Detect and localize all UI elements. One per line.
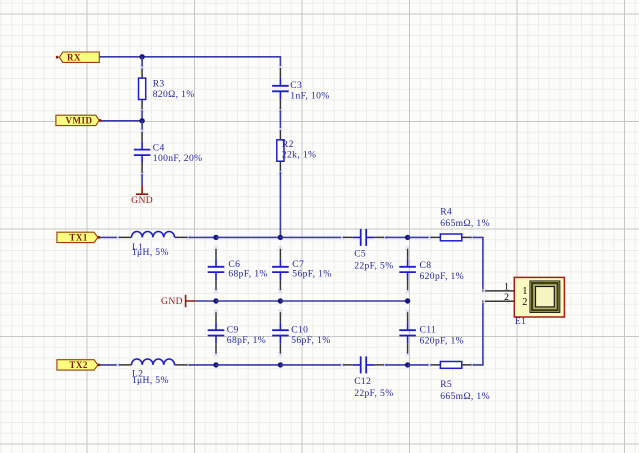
svg-text:GND: GND bbox=[131, 195, 153, 206]
svg-text:665mΩ, 1%: 665mΩ, 1% bbox=[440, 218, 490, 229]
resistor R3 (820&#937;, 1%) bbox=[139, 65, 195, 112]
port TX1 pin dot bbox=[98, 236, 101, 239]
svg-text:22pF, 5%: 22pF, 5% bbox=[354, 261, 393, 272]
wire GND row C6 to C7 bbox=[216, 300, 280, 302]
port RX pin dot bbox=[56, 56, 59, 59]
svg-text:E1: E1 bbox=[515, 316, 526, 327]
inductor L1 (1&#956;H, 5%) bbox=[116, 232, 191, 258]
wire TX1 port to L1 bbox=[99, 236, 117, 238]
svg-text:1μH, 5%: 1μH, 5% bbox=[132, 375, 169, 386]
E1 pin 1 bbox=[482, 282, 514, 293]
wire L1 to C6 node bbox=[189, 236, 217, 238]
svg-text:1: 1 bbox=[504, 282, 509, 293]
capacitor C9 (68pF, 1%) bbox=[208, 309, 266, 356]
svg-text:2: 2 bbox=[504, 292, 509, 303]
svg-text:56pF, 1%: 56pF, 1% bbox=[291, 335, 330, 346]
junction RX / R3 bbox=[139, 54, 144, 59]
svg-text:22k, 1%: 22k, 1% bbox=[282, 150, 316, 161]
wire R5 to E1 pin 2 bbox=[473, 301, 485, 365]
junction TX2 / C11 bbox=[405, 362, 410, 367]
wire VMID port to node bbox=[99, 120, 142, 122]
svg-text:C5: C5 bbox=[354, 249, 366, 260]
svg-text:820Ω, 1%: 820Ω, 1% bbox=[153, 89, 195, 100]
wire C7 node to C5 bbox=[280, 236, 341, 238]
power port GND (middle row) bbox=[161, 295, 196, 307]
wire C12 to C11 node bbox=[385, 364, 408, 366]
svg-text:R5: R5 bbox=[440, 379, 452, 390]
port TX1 bbox=[57, 232, 98, 242]
port VMID bbox=[56, 115, 99, 125]
capacitor C12 (22pF, 5%) bbox=[340, 356, 394, 399]
svg-text:22pF, 5%: 22pF, 5% bbox=[354, 388, 393, 399]
svg-text:68pF, 1%: 68pF, 1% bbox=[227, 335, 266, 346]
junction TX1 / C8 bbox=[405, 235, 410, 240]
junction VMID / C4 bbox=[139, 118, 144, 123]
svg-text:C11: C11 bbox=[420, 325, 437, 336]
wire RX to C3 column bbox=[99, 57, 280, 67]
resistor R2 (22k, 1%) bbox=[277, 127, 317, 174]
svg-text:665mΩ, 1%: 665mΩ, 1% bbox=[440, 391, 490, 402]
svg-text:R4: R4 bbox=[440, 207, 452, 218]
wire C4 to GND bbox=[141, 174, 143, 185]
svg-text:C8: C8 bbox=[420, 260, 432, 271]
svg-text:R3: R3 bbox=[153, 78, 165, 89]
connector E1 bbox=[514, 277, 564, 327]
wire C5 to C8 node bbox=[385, 236, 408, 238]
port TX2 pin dot bbox=[98, 364, 101, 367]
capacitor C10 (56pF, 1%) bbox=[272, 309, 330, 356]
junction TX1 / C6 bbox=[213, 235, 218, 240]
wire R4 to E1 pin 1 bbox=[473, 237, 485, 291]
svg-text:RX: RX bbox=[67, 52, 81, 62]
port TX2 bbox=[57, 360, 98, 370]
capacitor C4 (100nF, 20%) bbox=[134, 129, 203, 176]
wire C11 node to R5 bbox=[408, 364, 430, 366]
svg-text:620pF, 1%: 620pF, 1% bbox=[420, 271, 465, 282]
svg-text:1μH, 5%: 1μH, 5% bbox=[132, 247, 169, 258]
capacitor C5 (22pF, 5%) bbox=[340, 229, 394, 272]
wire R2 to TX1 row bbox=[279, 172, 281, 238]
wire C9 node to C10 node bbox=[216, 364, 280, 366]
junction GND / C6 / C9 bbox=[213, 298, 218, 303]
svg-text:C9: C9 bbox=[227, 324, 239, 335]
svg-text:56pF, 1%: 56pF, 1% bbox=[292, 269, 331, 280]
wire GND row C7 to C8 bbox=[280, 300, 407, 302]
wire R3 to VMID node bbox=[141, 110, 143, 121]
capacitor C8 (620pF, 1%) bbox=[399, 246, 464, 293]
junction TX1 / C7 / R2 bbox=[278, 235, 283, 240]
svg-text:C12: C12 bbox=[354, 376, 371, 387]
svg-text:C4: C4 bbox=[153, 142, 165, 153]
junction TX2 / C9 bbox=[213, 362, 218, 367]
svg-text:C3: C3 bbox=[290, 80, 302, 91]
svg-text:2: 2 bbox=[522, 297, 527, 308]
capacitor C3 (1nF, 10%) bbox=[272, 65, 330, 112]
wire C3 to R2 bbox=[279, 110, 281, 129]
port VMID pin dot bbox=[99, 119, 102, 122]
wire TX2 port to L2 bbox=[99, 364, 117, 366]
capacitor C6 (68pF, 1%) bbox=[208, 246, 268, 293]
wire C10 node to C12 bbox=[280, 364, 341, 366]
resistor R4 (665m&#937;, 1%) bbox=[427, 207, 490, 241]
svg-text:TX2: TX2 bbox=[69, 360, 88, 370]
wire VMID node to C4 bbox=[141, 121, 143, 131]
wire GND to C6 bottom node bbox=[196, 300, 216, 302]
E1 pin 2 bbox=[482, 292, 514, 303]
power port GND (below C4) bbox=[131, 185, 153, 205]
svg-text:68pF, 1%: 68pF, 1% bbox=[228, 269, 267, 280]
resistor R5 (665m&#937;, 1%) bbox=[427, 362, 490, 402]
junction GND / C8 / C11 bbox=[405, 298, 410, 303]
wire L2 to C9 node bbox=[189, 364, 217, 366]
svg-text:VMID: VMID bbox=[66, 116, 93, 126]
svg-text:100nF, 20%: 100nF, 20% bbox=[153, 153, 203, 164]
svg-text:C10: C10 bbox=[291, 324, 308, 335]
wire C6 node to C7 node bbox=[216, 236, 280, 238]
port RX bbox=[59, 52, 99, 62]
wire C8 node to R4 bbox=[408, 236, 430, 238]
svg-text:1: 1 bbox=[522, 286, 527, 297]
svg-text:TX1: TX1 bbox=[69, 233, 88, 243]
capacitor C7 (56pF, 1%) bbox=[272, 246, 332, 293]
capacitor C11 (620pF, 1%) bbox=[399, 309, 464, 356]
svg-text:R2: R2 bbox=[282, 139, 294, 150]
svg-text:620pF, 1%: 620pF, 1% bbox=[420, 336, 465, 347]
svg-text:GND: GND bbox=[161, 296, 183, 307]
inductor L2 (1&#956;H, 5%) bbox=[116, 359, 191, 386]
junction GND / C7 / C10 bbox=[278, 298, 283, 303]
svg-text:1nF, 10%: 1nF, 10% bbox=[290, 91, 329, 102]
junction TX2 / C10 bbox=[278, 362, 283, 367]
wire R3 top pin to RX row bbox=[141, 57, 143, 68]
